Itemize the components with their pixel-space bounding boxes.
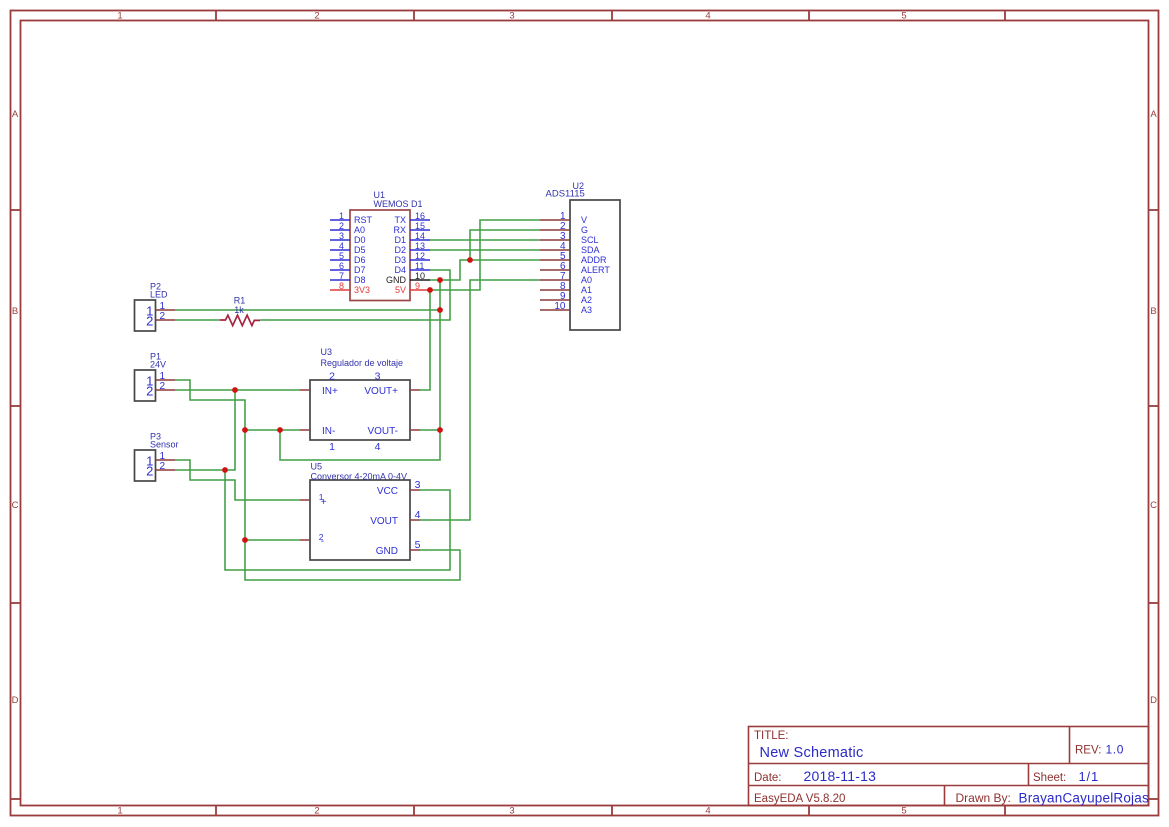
svg-text:5: 5 [901,806,906,817]
svg-text:B: B [12,306,18,317]
junction at 430,290 [427,287,433,293]
resistor R1 1k [220,315,260,325]
U3 pin 2 IN+ [300,389,310,391]
U1 pin 7 D8 [330,279,350,281]
svg-text:2: 2 [339,221,344,231]
svg-text:3: 3 [415,479,421,491]
wire R1 to LED pin2 [175,319,220,321]
junction at 440,310 [437,307,443,313]
title block [749,727,1149,806]
connector P1 24V box [135,370,156,401]
svg-text:Sensor: Sensor [150,440,179,450]
svg-text:IN-: IN- [322,426,335,437]
svg-text:1/1: 1/1 [1079,769,1099,784]
P2 pin 1 [156,309,176,311]
U2 pin 6 ALERT [540,269,570,271]
svg-text:3: 3 [339,231,344,241]
U3 pin 3 VOUT+ [410,389,420,391]
U2 pin 5 ADDR [540,259,570,261]
svg-text:1: 1 [339,211,344,221]
U3 pin 1 IN- [300,429,310,431]
svg-text:SCL: SCL [581,235,599,245]
svg-text:-: - [321,536,324,547]
svg-text:D7: D7 [354,265,366,275]
U1 pin 6 D7 [330,269,350,271]
wire G (U2) [470,230,540,260]
wire U5 minus row [245,539,300,541]
U2 pin 1 V [540,219,570,221]
U2 pin 4 SDA [540,249,570,251]
svg-text:C: C [12,500,19,511]
wire VOUT- stub [420,429,440,431]
wire P3 pin1 to U5 plus [175,460,300,500]
svg-text:EasyEDA V5.8.20: EasyEDA V5.8.20 [754,793,845,805]
svg-text:11: 11 [415,261,424,271]
svg-text:6: 6 [339,261,344,271]
svg-text:REV:: REV: [1075,745,1101,757]
junction at 225,470 [222,467,228,473]
U1 pin 5 D6 [330,259,350,261]
svg-text:4: 4 [705,806,710,817]
svg-text:ADS1115: ADS1115 [546,189,585,200]
U1 pin 11 D4 [410,269,430,271]
svg-text:14: 14 [415,231,425,241]
svg-text:2: 2 [160,461,166,472]
svg-text:1: 1 [117,806,122,817]
svg-text:WEMOS D1: WEMOS D1 [374,199,423,209]
svg-text:A: A [1150,109,1157,120]
wire IN- row [245,429,300,431]
svg-text:5: 5 [415,539,421,551]
svg-text:New Schematic: New Schematic [760,745,864,761]
svg-text:GND: GND [386,275,407,285]
svg-text:D: D [12,695,19,706]
svg-text:SDA: SDA [581,245,600,255]
connector P2 LED box [135,300,156,331]
svg-text:R1: R1 [234,296,246,306]
U5 pin 1 plus [300,499,310,501]
svg-text:D2: D2 [394,245,406,255]
wire VOUT+ to 5V [420,290,430,390]
U1 pin 3 D0 [330,239,350,241]
svg-text:3: 3 [375,371,381,383]
svg-text:D1: D1 [394,235,406,245]
svg-text:A2: A2 [581,295,592,305]
wire 5V to V (U2) [430,220,540,290]
svg-text:16: 16 [415,211,425,221]
wire LED pin1 to ground rail [175,309,440,311]
svg-text:13: 13 [415,241,425,251]
junction at 245,430 [242,427,248,433]
wire U5 VOUT to A0 [420,280,540,520]
svg-text:B: B [1150,306,1156,317]
U5 pin 2 minus [300,539,310,541]
svg-text:Sheet:: Sheet: [1033,772,1066,784]
svg-text:RST: RST [354,215,373,225]
U1 pin 4 D5 [330,249,350,251]
svg-text:7: 7 [339,271,344,281]
U2 pin 3 SCL [540,239,570,241]
svg-text:VOUT+: VOUT+ [364,386,398,397]
wire D1 to SCL [430,239,540,241]
svg-text:3: 3 [509,806,514,817]
wire 24V+ to P3 pin2 [175,390,235,470]
svg-text:3V3: 3V3 [354,285,370,295]
svg-text:2: 2 [329,371,335,383]
wire GND to ADDR [430,260,540,280]
P1 pin 2 [156,389,176,391]
svg-text:3: 3 [509,11,514,22]
svg-text:A0: A0 [581,275,592,285]
svg-text:2: 2 [146,463,153,478]
junction at 440,430 [437,427,443,433]
svg-text:5: 5 [901,11,906,22]
svg-text:D8: D8 [354,275,366,285]
U5 pin 3 VCC [410,489,420,491]
svg-text:D3: D3 [394,255,406,265]
connector P3 Sensor box [135,450,156,481]
svg-text:TITLE:: TITLE: [754,730,789,742]
svg-text:BrayanCayupelRojas: BrayanCayupelRojas [1019,791,1149,806]
svg-text:2: 2 [146,383,153,398]
svg-text:1: 1 [117,11,122,22]
U1 pin 2 A0 [330,229,350,231]
svg-text:15: 15 [415,221,425,231]
junction at 440,280 [437,277,443,283]
U2 pin 8 A1 [540,289,570,291]
U2 pin 7 A0 [540,279,570,281]
svg-text:2018-11-13: 2018-11-13 [804,768,877,784]
svg-text:D4: D4 [394,265,406,275]
svg-text:Conversor 4-20mA 0-4V: Conversor 4-20mA 0-4V [311,472,408,482]
U1 pin 15 RX [410,229,430,231]
svg-text:4: 4 [339,241,344,251]
U1 pin 8 3V3 [330,289,350,291]
U2 pin 10 A3 [540,309,570,311]
svg-text:ALERT: ALERT [581,265,610,275]
svg-text:10: 10 [415,271,425,281]
svg-text:Regulador de voltaje: Regulador de voltaje [321,358,404,368]
svg-text:LED: LED [150,290,168,300]
wire D2 to SDA [430,249,540,251]
svg-text:VOUT: VOUT [370,516,398,527]
svg-text:TX: TX [394,215,406,225]
svg-text:2: 2 [160,311,166,322]
svg-text:12: 12 [415,251,425,261]
U3 pin 4 VOUT- [410,429,420,431]
U1 pin 14 D1 [410,239,430,241]
U1 pin 1 RST [330,219,350,221]
U2 pin 2 G [540,229,570,231]
svg-text:D0: D0 [354,235,366,245]
svg-text:+: + [321,497,327,508]
svg-text:U3: U3 [321,347,333,357]
P3 pin 2 [156,469,176,471]
U5 Conversor 4-20mA 0-4V box [310,480,410,560]
svg-text:5V: 5V [395,285,406,295]
wire D4 to R1 [260,270,450,320]
svg-text:2: 2 [146,313,153,328]
svg-text:4: 4 [415,509,421,521]
svg-text:9: 9 [415,281,420,291]
wire P1 pin1 to IN- and U5 GND rail [175,380,460,580]
wire ground rail vertical [280,280,440,460]
U1 pin 10 GND [410,279,430,281]
svg-text:C: C [1150,500,1157,511]
P2 pin 2 [156,319,176,321]
U5 pin 4 VOUT [410,519,420,521]
P3 pin 1 [156,459,176,461]
U1 pin 12 D3 [410,259,430,261]
U2 pin 9 A2 [540,299,570,301]
svg-text:Date:: Date: [754,772,782,784]
svg-text:24V: 24V [150,360,166,370]
svg-text:ADDR: ADDR [581,255,607,265]
svg-text:Drawn By:: Drawn By: [956,791,1011,805]
svg-text:4: 4 [705,11,710,22]
svg-text:2: 2 [314,806,319,817]
P1 pin 1 [156,379,176,381]
junction at 235,390 [232,387,238,393]
svg-text:U5: U5 [311,462,323,472]
junction at 280,430 [277,427,283,433]
svg-text:10: 10 [554,301,566,312]
op-amp U1 WEMOS D1 symbol box [350,210,410,301]
U1 pin 13 D2 [410,249,430,251]
svg-text:A0: A0 [354,225,365,235]
wire P1 pin2 to IN+ [175,389,300,391]
svg-text:4: 4 [375,441,381,453]
svg-text:VOUT-: VOUT- [367,426,398,437]
svg-text:A1: A1 [581,285,592,295]
svg-text:D5: D5 [354,245,366,255]
U5 pin 5 GND [410,549,420,551]
wire P3 pin2 loop to U5 VCC [225,470,450,570]
junction at 245,540 [242,537,248,543]
svg-text:1.0: 1.0 [1106,743,1124,757]
svg-text:2: 2 [314,11,319,22]
svg-text:GND: GND [376,546,398,557]
svg-text:1k: 1k [234,305,244,315]
svg-text:G: G [581,225,588,235]
svg-text:A: A [12,109,19,120]
U1 pin 9 5V [410,289,430,291]
U3 Regulador de voltaje box [310,380,410,440]
svg-text:D6: D6 [354,255,366,265]
U2 ADS1115 symbol box [570,200,620,330]
svg-text:2: 2 [160,381,166,392]
svg-text:D: D [1150,695,1157,706]
svg-text:8: 8 [339,281,344,291]
svg-text:V: V [581,215,587,225]
junction at 470,260 [467,257,473,263]
svg-text:IN+: IN+ [322,386,338,397]
U1 pin 16 TX [410,219,430,221]
svg-text:1: 1 [329,441,335,453]
svg-text:VCC: VCC [377,486,398,497]
svg-text:RX: RX [393,225,406,235]
svg-text:A3: A3 [581,305,592,315]
svg-text:5: 5 [339,251,344,261]
